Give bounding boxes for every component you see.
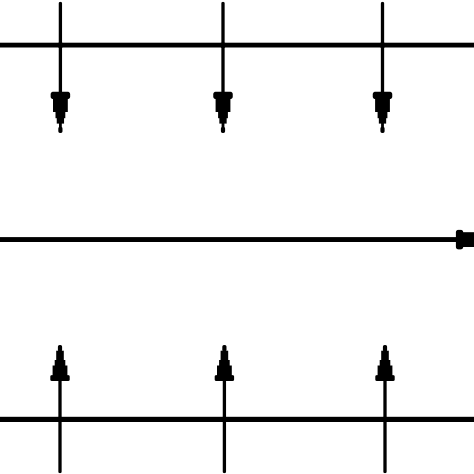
sprinkler head S3 bbox=[373, 92, 393, 133]
junction node J6 (L3 x riser 6) bbox=[382, 416, 388, 422]
wire riser 3 (top, x=382.5) bbox=[381, 4, 384, 94]
junction node J5 (L3 x riser 5) bbox=[221, 416, 227, 422]
sprinkler head S2 bbox=[213, 92, 233, 133]
sprinkler head S6 (bottom, x=224.4) bbox=[215, 345, 234, 381]
junction node J3 (L1 x riser 3) bbox=[379, 42, 385, 48]
wire riser 1 (top, x=60.4) bbox=[59, 4, 62, 94]
sprinkler head S1 bbox=[51, 92, 71, 133]
lateral line L3 (bottom bus) bbox=[0, 417, 474, 422]
junction node J1 (L1 x riser 1) bbox=[57, 42, 63, 48]
wire riser 6 (bottom, x=385.0) bbox=[383, 379, 386, 472]
sprinkler head S5 (bottom, x=60) bbox=[50, 345, 69, 381]
wire riser 4 (bottom, x=60) bbox=[58, 379, 61, 472]
lateral line L2 (middle) bbox=[0, 237, 457, 242]
sprinkler head S7 (bottom, x=385.0) bbox=[375, 345, 394, 381]
junction node J4 (L3 x riser 4) bbox=[57, 416, 63, 422]
lateral line L1 (top bus) bbox=[0, 43, 474, 48]
junction node J2 (L1 x riser 2) bbox=[220, 42, 226, 48]
sprinkler head S4 (end of line, pointing right, clipped by edge) bbox=[456, 230, 474, 250]
wire riser 5 (bottom, x=224.4) bbox=[223, 379, 226, 472]
wire riser 2 (top, x=223) bbox=[221, 4, 224, 94]
